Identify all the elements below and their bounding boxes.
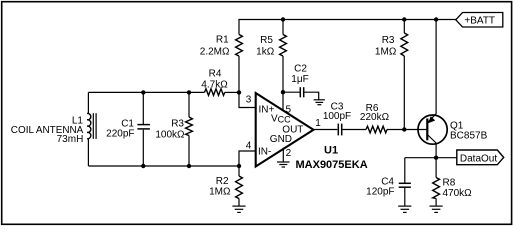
label R4 value 4.7k	[201, 69, 228, 91]
junction R3a top	[187, 90, 191, 94]
wire Q1 emitter lead	[435, 20, 437, 114]
wire C2 lead	[283, 91, 300, 93]
op-amp U1 triangle	[256, 93, 314, 167]
svg-text:R2: R2	[216, 176, 229, 187]
capacitor C3	[338, 124, 341, 136]
wire pin 2 to ground	[282, 148, 284, 162]
wire R5 bottom lead to pin 5	[282, 56, 284, 111]
resistor R3 100k	[186, 117, 193, 136]
junction Q1 emitter rail	[434, 17, 438, 21]
label Q1 BC857B	[450, 121, 488, 142]
wire R4 to node	[225, 91, 239, 93]
svg-text:+BATT: +BATT	[464, 15, 495, 26]
svg-text:3: 3	[246, 95, 252, 106]
junction R3a bottom	[187, 164, 191, 168]
svg-text:4: 4	[246, 141, 252, 152]
svg-text:DataOut: DataOut	[460, 154, 497, 165]
resistor R4	[205, 89, 225, 96]
svg-text:4.7kΩ: 4.7kΩ	[201, 79, 228, 90]
svg-text:R8: R8	[443, 178, 456, 189]
wire C4 top lead	[404, 158, 406, 183]
wire R6 to Q1 base	[387, 129, 427, 131]
resistor R8	[433, 178, 440, 199]
wire +BATT top rail	[238, 19, 455, 21]
svg-text:5: 5	[286, 105, 292, 116]
svg-text:R3: R3	[382, 35, 395, 46]
resistor R6	[366, 126, 387, 133]
svg-text:U1: U1	[324, 145, 338, 157]
wire R1 bottom lead	[238, 56, 240, 92]
ground R8	[430, 206, 443, 212]
label R6 value 220k	[360, 103, 390, 123]
svg-text:R3: R3	[171, 118, 184, 129]
wire C1 bottom lead	[142, 130, 144, 166]
capacitor C4	[399, 183, 411, 187]
wire tank bottom rail	[88, 165, 239, 167]
junction R3 bottom at base wire	[402, 127, 406, 131]
wire R1 top lead	[238, 20, 240, 35]
wire R3a top lead	[188, 92, 190, 117]
resistor R1	[236, 35, 243, 57]
svg-text:BC857B: BC857B	[450, 131, 488, 142]
junction R5 top	[281, 17, 285, 21]
wire C2 to ground	[304, 92, 318, 99]
transistor Q1	[418, 114, 447, 158]
svg-text:GND: GND	[270, 134, 292, 145]
wire pin 4 lead	[239, 151, 256, 166]
junction C2 tee on pin5 wire	[281, 90, 285, 94]
label R8 value 470k	[443, 178, 473, 200]
svg-text:IN-: IN-	[258, 146, 271, 157]
wire R8 top lead	[435, 158, 437, 178]
svg-text:73mH: 73mH	[57, 134, 84, 145]
svg-text:1kΩ: 1kΩ	[256, 47, 275, 58]
svg-text:2.2MΩ: 2.2MΩ	[200, 46, 230, 57]
label R3 value 1M	[375, 35, 397, 58]
label R5 value 1k	[256, 35, 275, 58]
svg-text:R1: R1	[216, 34, 229, 45]
resistor R5	[280, 35, 287, 57]
wire U1 output	[314, 129, 338, 131]
wire C4 bottom lead	[404, 188, 406, 206]
junction R2 top node	[237, 164, 241, 168]
svg-text:1: 1	[315, 118, 321, 129]
wire C3 to R6	[342, 129, 366, 131]
label C4 value 120pF	[366, 177, 394, 198]
resistor R2	[236, 176, 243, 199]
junction R3 top	[402, 17, 406, 21]
ground C4	[398, 206, 411, 212]
ground C2	[314, 100, 325, 105]
svg-text:220kΩ: 220kΩ	[360, 112, 390, 123]
svg-text:2: 2	[286, 148, 292, 159]
svg-text:C2: C2	[294, 64, 307, 75]
inductor L1 coil	[87, 92, 96, 166]
wire R3 top lead	[403, 20, 405, 34]
ground U1 pin 2	[277, 162, 290, 167]
svg-text:120pF: 120pF	[366, 186, 394, 197]
capacitor C2	[300, 87, 303, 97]
svg-text:100pF: 100pF	[323, 111, 351, 122]
svg-text:1μF: 1μF	[291, 74, 308, 85]
svg-text:1MΩ: 1MΩ	[209, 187, 231, 198]
label L1 COIL ANTENNA 73mH	[11, 115, 84, 145]
junction C1 top	[141, 90, 145, 94]
svg-text:470kΩ: 470kΩ	[443, 188, 473, 199]
wire R2 top lead	[238, 166, 240, 176]
flag +BATT	[456, 13, 503, 28]
svg-text:MAX9075EKA: MAX9075EKA	[296, 159, 368, 171]
svg-text:R4: R4	[209, 69, 222, 80]
label R3 value 100k	[155, 118, 185, 140]
junction R4 right / pin3 node	[237, 90, 241, 94]
wire R8 bottom lead	[435, 199, 437, 206]
svg-text:220pF: 220pF	[106, 129, 134, 140]
svg-text:1MΩ: 1MΩ	[375, 47, 397, 58]
label R1 value 2.2M	[200, 34, 230, 57]
wire R2 bottom lead	[238, 199, 240, 206]
label C1 value 220pF	[106, 119, 134, 140]
ground R2	[232, 206, 245, 212]
label R2 value 1M	[209, 176, 231, 198]
svg-text:100kΩ: 100kΩ	[155, 129, 185, 140]
wire DataOut row	[405, 157, 457, 159]
wire R5 top lead	[282, 20, 284, 35]
wire C1 top lead	[142, 92, 144, 124]
svg-text:R5: R5	[260, 35, 273, 46]
capacitor C1	[137, 125, 150, 129]
label C3 value 100pF	[323, 101, 351, 122]
resistor R3 1M	[401, 33, 408, 56]
wire tank top rail	[88, 91, 204, 93]
wire R3a bottom lead	[188, 136, 190, 167]
wire R3 bottom lead	[403, 56, 405, 130]
flag DataOut	[457, 150, 504, 165]
junction Q1 collector node	[434, 156, 438, 160]
label C2 value 1uF	[291, 64, 308, 86]
junction C1 bottom	[141, 164, 145, 168]
wire pin 3 lead	[239, 92, 256, 107]
